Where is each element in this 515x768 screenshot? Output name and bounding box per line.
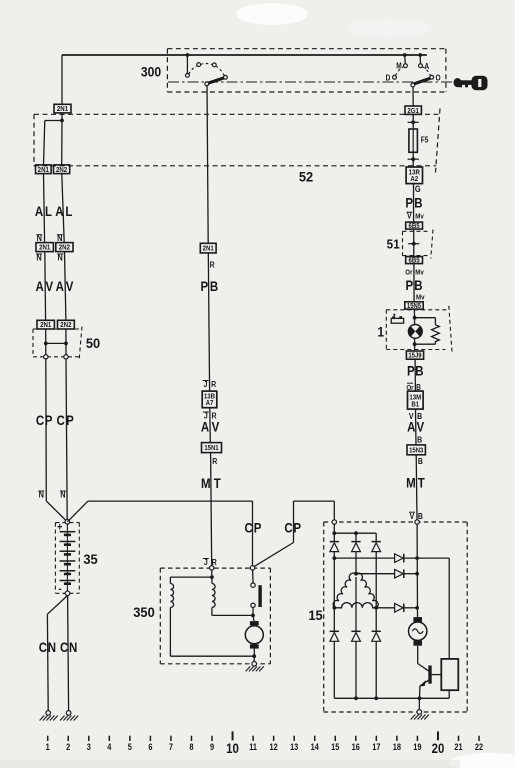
connector 2N2 pair1-right — [54, 165, 70, 174]
svg-text:17: 17 — [372, 742, 381, 752]
wire phase1 vertical — [333, 552, 335, 608]
wire motor to bottom junction — [253, 649, 255, 657]
switch S2 junction A stub — [418, 53, 422, 57]
svg-text:D: D — [386, 73, 391, 83]
excitation diode 2 — [395, 569, 404, 578]
junction phase3 corner — [374, 606, 378, 610]
switch S1 contact 2 — [197, 63, 201, 67]
svg-text:V: V — [66, 278, 74, 294]
svg-text:G: G — [415, 184, 421, 194]
wire through 51 — [413, 229, 415, 257]
wire lamp bottom — [414, 338, 416, 351]
wire CN left down — [46, 614, 49, 710]
wire phase3 to neg diode — [375, 608, 377, 632]
svg-text:3: 3 — [87, 742, 91, 752]
wire to starter ground — [253, 656, 255, 661]
svg-text:R: R — [212, 456, 217, 466]
wire left branch down — [44, 121, 45, 165]
wire phase3 vertical — [375, 552, 377, 608]
ground right — [66, 711, 71, 716]
warning lamp (charge indicator) — [408, 325, 422, 339]
svg-text:12: 12 — [270, 742, 279, 752]
solenoid plunger bar — [258, 585, 261, 607]
svg-text:A: A — [56, 278, 64, 294]
wire AV left — [44, 252, 47, 321]
negative diode 3 — [372, 630, 381, 632]
wire battery to solenoid drop — [252, 501, 254, 566]
wire bus drop mid — [355, 533, 357, 541]
transistor emitter arrow — [419, 680, 425, 686]
wire regulator top feed — [448, 558, 450, 659]
svg-text:A: A — [35, 203, 43, 219]
svg-text:1: 1 — [46, 742, 50, 752]
excitation diode 1 — [395, 554, 404, 563]
svg-text:4: 4 — [107, 742, 111, 752]
positive diode 3 — [372, 541, 381, 543]
wire neg3 to bus — [375, 641, 377, 698]
svg-text:14: 14 — [311, 742, 320, 752]
svg-text:9: 9 — [210, 742, 214, 752]
link wire inside 50 — [46, 342, 66, 344]
wire phase2 vertical lower — [355, 577, 357, 631]
battery minus node — [65, 591, 70, 596]
wire right branch down — [61, 121, 63, 165]
svg-text:T: T — [418, 474, 425, 490]
branch junction — [60, 119, 64, 123]
fuse F5 internal wire — [412, 129, 414, 152]
node exit 50 right — [64, 355, 68, 359]
connector 2N1 top — [54, 104, 71, 113]
connector 2N1 middle — [200, 243, 216, 253]
svg-text:2N2: 2N2 — [56, 166, 67, 174]
wire phase2 vertical upper — [355, 552, 357, 574]
junction ground bus — [418, 696, 422, 700]
transistor base bar — [428, 666, 431, 684]
svg-text:R: R — [211, 379, 216, 389]
splice mark inside 51 — [408, 243, 419, 245]
svg-text:R: R — [210, 260, 215, 270]
excitation row 2 wire out — [404, 573, 417, 575]
transistor base wire — [432, 674, 442, 676]
svg-text:N: N — [69, 639, 77, 655]
svg-text:F5: F5 — [421, 135, 429, 145]
svg-text:350: 350 — [133, 605, 154, 621]
svg-text:2G1: 2G1 — [407, 107, 419, 115]
switch S1 contact arc (left switch of 300) — [189, 64, 224, 76]
stator winding right side — [357, 573, 379, 608]
node exit 50 left — [44, 355, 48, 359]
ignition key icon — [454, 76, 488, 90]
switch S1 contact 3 — [212, 63, 216, 67]
stator winding bottom side — [335, 603, 377, 608]
positive diode 1 — [330, 541, 339, 543]
svg-text:A: A — [201, 418, 209, 434]
junction excitation 3 on B+ wire — [415, 606, 419, 610]
wire mid coil to solenoid node — [211, 608, 213, 616]
connector 15J9 — [406, 351, 423, 359]
wire resistor drop — [434, 318, 436, 325]
negative diode 1 — [330, 630, 339, 632]
svg-text:20: 20 — [432, 740, 445, 756]
svg-text:B: B — [417, 435, 422, 445]
svg-text:16: 16 — [352, 742, 361, 752]
switch S1 lever — [208, 78, 224, 83]
svg-text:2N1: 2N1 — [38, 166, 49, 174]
svg-text:B: B — [210, 278, 218, 294]
switch S2 lever — [414, 78, 430, 84]
node solenoid contact entry — [250, 566, 254, 570]
wire lower contact to motor — [252, 608, 254, 616]
svg-text:M: M — [396, 61, 401, 71]
svg-text:21: 21 — [454, 742, 463, 752]
wire lamp branch top — [415, 317, 436, 319]
svg-text:O: O — [435, 73, 440, 83]
battery icon in unit 1 — [391, 314, 403, 324]
wire AL right — [62, 174, 64, 243]
svg-text:P: P — [45, 412, 53, 428]
connector 2N2 pair2-right — [56, 243, 73, 252]
junction minus bus 2 — [354, 696, 358, 700]
svg-text:-: - — [58, 583, 61, 595]
svg-text:A: A — [424, 61, 429, 71]
wire inside 50 right — [65, 329, 67, 355]
wire to left coil — [170, 576, 212, 578]
switch S2 contact D — [393, 75, 397, 79]
wire MT middle — [211, 453, 212, 566]
switch S2 pivot — [411, 83, 415, 87]
wire neg1 to bus — [333, 641, 335, 698]
node alternator excitation entry — [332, 520, 336, 524]
switch S2 contact arc A-O — [422, 67, 430, 76]
splice mark below fuse — [408, 158, 419, 160]
svg-text:6: 6 — [148, 742, 152, 752]
transistor emitter lead — [420, 680, 428, 686]
wire B+ vertical — [416, 524, 418, 617]
junction excitation 1 on B+ wire — [415, 556, 419, 560]
positive diode 2 — [351, 541, 360, 543]
wire left diagonal to battery — [46, 501, 66, 521]
svg-text:2N1: 2N1 — [57, 106, 68, 114]
switch S1 feed stub — [186, 55, 188, 74]
switch S1 pivot — [205, 82, 209, 86]
wire into motor brush — [253, 615, 254, 621]
wire left coil to bottom — [169, 608, 171, 657]
battery 35 dashed box — [55, 523, 79, 594]
wire CN diagonal from battery — [47, 596, 67, 615]
excitation row 1 wire — [334, 557, 394, 559]
starter motor M brush top — [250, 621, 259, 625]
svg-text:P: P — [293, 519, 301, 535]
ground starter — [252, 662, 257, 667]
svg-text:22: 22 — [475, 742, 484, 752]
wire PB middle — [208, 253, 209, 391]
junction phase1 tap — [332, 556, 336, 560]
centerline dash-dot — [168, 81, 455, 83]
node alternator B+ entry — [415, 520, 419, 524]
transistor collector lead — [418, 664, 429, 671]
wire 13M to 15N3 — [415, 409, 418, 445]
connector unit 52 dashed box — [34, 109, 440, 173]
svg-text:5: 5 — [128, 742, 132, 752]
svg-text:300: 300 — [141, 64, 161, 80]
svg-text:V: V — [212, 418, 220, 434]
svg-text:Or: Or — [405, 269, 412, 277]
svg-text:L: L — [45, 203, 52, 219]
node starter control entry — [210, 566, 214, 570]
switch S1 feed junction — [186, 53, 190, 57]
svg-text:V: V — [46, 278, 54, 294]
rotor brush bottom — [413, 641, 422, 646]
svg-text:19: 19 — [413, 742, 422, 752]
wire entry to coil junction — [211, 570, 213, 577]
wire rotor to transistor — [417, 646, 419, 664]
svg-text:B: B — [418, 456, 423, 466]
svg-text:11: 11 — [249, 742, 257, 752]
warning lamp unit 1 dashed box — [386, 306, 452, 352]
svg-text:8: 8 — [189, 742, 193, 752]
wire 2G1 to fuse — [412, 114, 414, 129]
switch S2 contact arc D-M — [396, 67, 404, 76]
excitation row 3 wire out — [404, 607, 417, 609]
svg-text:A: A — [55, 203, 63, 219]
svg-text:B: B — [415, 362, 423, 378]
wire bus drop right — [375, 533, 377, 541]
splice mark above fuse — [408, 121, 419, 123]
svg-text:P: P — [200, 278, 208, 294]
svg-text:52: 52 — [299, 169, 313, 185]
svg-text:N: N — [48, 639, 56, 655]
switch S2 junction M stub — [403, 53, 407, 57]
switch S1 contact O — [224, 75, 228, 79]
junction lamp top — [413, 316, 417, 320]
starter motor 350 dashed box — [160, 568, 270, 664]
wire S2 pivot to 2G1 — [412, 87, 414, 106]
excitation row 3 wire — [376, 607, 394, 609]
wire AV right — [65, 252, 66, 321]
wire branch horizontal — [45, 120, 62, 122]
svg-text:15: 15 — [308, 608, 323, 624]
connector 13B A7 — [202, 391, 217, 408]
wire to upper contact — [252, 570, 254, 583]
svg-text:15N5: 15N5 — [407, 303, 422, 311]
svg-text:P: P — [254, 519, 262, 535]
wire 6B5 to 15N5 — [413, 264, 415, 302]
regulator unit 51 dashed box — [403, 230, 434, 259]
wire CN right down — [68, 596, 69, 711]
svg-text:A: A — [35, 278, 43, 294]
wire 2N1 to branch junction — [61, 113, 63, 121]
svg-text:A: A — [407, 418, 415, 434]
rotor brush top — [413, 617, 422, 622]
svg-text:B: B — [414, 195, 422, 211]
excitation row 2 wire — [356, 573, 395, 575]
svg-text:1: 1 — [377, 324, 384, 340]
wire 15J9 to 13M — [414, 359, 416, 391]
fuse F5 body — [409, 129, 418, 152]
wire 13B to 15N1 — [209, 408, 212, 443]
junction dot link right — [64, 342, 68, 346]
wire from S1 pivot down to 2N1 — [207, 86, 208, 244]
wire emitter to ground bus — [419, 686, 421, 698]
wire MT charge — [415, 455, 418, 520]
svg-text:A2: A2 — [410, 176, 418, 184]
junction plus bus mid — [354, 531, 358, 535]
svg-text:L: L — [65, 203, 72, 219]
svg-text:T: T — [214, 475, 221, 491]
wire CP left — [45, 359, 48, 501]
svg-text:15N1: 15N1 — [204, 445, 219, 453]
connector 2G1 — [405, 106, 421, 114]
svg-text:13: 13 — [290, 742, 299, 752]
svg-text:2: 2 — [66, 742, 70, 752]
switch S2 contact M — [404, 64, 408, 68]
wire AL left — [44, 174, 45, 243]
svg-text:P: P — [405, 195, 413, 211]
junction excitation 2 on B+ wire — [415, 572, 419, 576]
svg-text:Mv: Mv — [416, 294, 425, 302]
solenoid contact upper — [251, 583, 255, 587]
wire starter bottom bus — [170, 655, 254, 657]
alternator plus bus — [334, 532, 376, 534]
connector 6B5 upper — [406, 222, 423, 229]
connector 15N5 — [405, 302, 423, 309]
connector 15N3 — [407, 445, 425, 455]
svg-text:P: P — [407, 362, 415, 378]
svg-text:A7: A7 — [206, 400, 214, 408]
svg-text:51: 51 — [387, 237, 400, 252]
alternator minus bus — [334, 697, 449, 699]
excitation diode 3 — [395, 604, 404, 613]
svg-text:Mv: Mv — [415, 213, 424, 221]
svg-text:B: B — [418, 511, 423, 521]
svg-text:7: 7 — [169, 742, 173, 752]
connector 2N1 pair2-left — [36, 243, 53, 252]
wire inside 50 left — [45, 329, 47, 355]
wire fuse to 13R — [412, 152, 414, 167]
excitation row 1 wire out — [404, 557, 449, 559]
svg-text:2N1: 2N1 — [40, 322, 51, 330]
svg-text:2N1: 2N1 — [39, 244, 50, 252]
svg-text:M: M — [406, 474, 416, 490]
junction lamp bottom — [413, 342, 417, 346]
junction stator apex — [354, 572, 358, 576]
svg-text:50: 50 — [86, 336, 100, 352]
svg-text:Mv: Mv — [415, 269, 424, 277]
battery plus terminal node — [65, 520, 70, 525]
connector 13M B1 — [408, 391, 424, 409]
connector 6B5 lower — [406, 257, 423, 264]
connector 2N2 pair3-right — [58, 320, 75, 329]
svg-text:C: C — [56, 412, 64, 428]
resistor R (lamp shunt) — [432, 325, 440, 344]
wire neg2 to bus — [355, 641, 357, 698]
svg-text:P: P — [66, 412, 74, 428]
wire 15N5 to lamp — [413, 309, 415, 324]
stator winding left side — [333, 573, 355, 608]
junction coils — [210, 575, 214, 579]
rotor winding squiggle — [412, 629, 423, 634]
junction plus bus left — [332, 531, 336, 535]
svg-text:15J9: 15J9 — [408, 352, 422, 360]
svg-text:B: B — [414, 277, 422, 293]
svg-text:C: C — [284, 519, 292, 535]
wire regulator bottom — [448, 690, 450, 698]
starter motor M body — [245, 626, 263, 644]
svg-text:35: 35 — [83, 552, 98, 568]
svg-text:18: 18 — [393, 742, 402, 752]
svg-text:C: C — [244, 519, 252, 535]
connector 15N1 — [202, 443, 222, 453]
connector unit 50 dashed box — [33, 327, 82, 362]
svg-text:M: M — [201, 475, 211, 491]
junction stator BL corner — [333, 606, 337, 610]
starter hold-in coil — [170, 584, 173, 608]
svg-text:2N1: 2N1 — [203, 245, 214, 253]
wire battery to solenoid horizontal — [67, 501, 88, 522]
wire ground stub — [418, 698, 420, 709]
svg-text:10: 10 — [226, 740, 239, 756]
battery cells — [60, 532, 76, 585]
switch S1 contact 1 — [186, 74, 190, 78]
negative diode 2 — [351, 630, 360, 632]
ruler scale — [46, 731, 484, 756]
svg-text:C: C — [60, 639, 68, 655]
solenoid contact lower — [251, 603, 255, 607]
svg-text:15: 15 — [331, 742, 340, 752]
svg-text:2N2: 2N2 — [60, 322, 71, 330]
wire lamp branch bottom — [415, 343, 436, 345]
ignition switch unit 300 dashed box — [167, 49, 446, 92]
svg-text:P: P — [406, 277, 414, 293]
switch S2 contact O — [430, 75, 434, 79]
wire solenoid to alternator link — [254, 543, 293, 567]
wire CP right — [66, 359, 67, 519]
alternator unit 15 dashed box — [324, 522, 468, 712]
wire excitation entry down — [333, 524, 335, 541]
voltage regulator box — [441, 659, 458, 690]
connector 13R A2 — [406, 167, 422, 184]
svg-text:2N2: 2N2 — [59, 244, 70, 252]
wire top feed horizontal — [62, 54, 427, 56]
starter motor M brush bottom — [250, 644, 259, 648]
connector 2N1 pair3-left — [37, 320, 54, 329]
ground alternator — [417, 710, 422, 715]
svg-text:V: V — [416, 418, 424, 434]
junction dot link left — [44, 342, 48, 346]
svg-text:B1: B1 — [411, 401, 419, 409]
junction solenoid-motor — [251, 614, 255, 618]
svg-text:C: C — [39, 639, 47, 655]
battery center conductor — [66, 524, 68, 592]
svg-text:C: C — [36, 412, 44, 428]
junction minus bus 3 — [374, 696, 378, 700]
ground left — [46, 711, 51, 716]
rotor body — [409, 622, 427, 640]
starter pull-in coil — [212, 584, 215, 608]
wire left drop to 2N1 — [61, 55, 63, 104]
wire phase1 to neg diode — [333, 608, 335, 632]
switch S2 contact A — [419, 64, 423, 68]
connector 2N1 pair1-left — [36, 165, 52, 174]
wire 13R to 6B5 — [413, 184, 415, 223]
junction starter bottom — [252, 654, 256, 658]
svg-text:15N3: 15N3 — [409, 447, 424, 455]
